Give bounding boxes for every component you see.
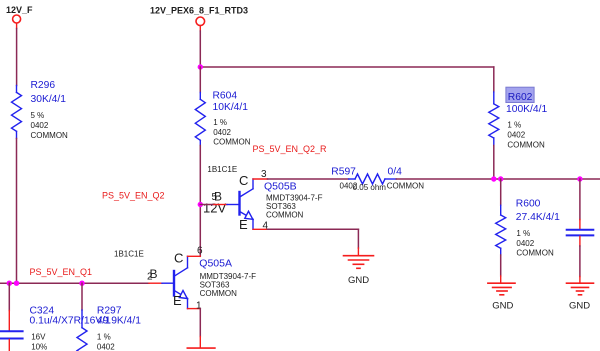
svg-text:1B1C1E: 1B1C1E xyxy=(114,250,144,259)
wire C324 down to edge xyxy=(8,340,10,351)
R604 value labels xyxy=(213,90,251,146)
svg-text:12V_F: 12V_F xyxy=(6,5,33,15)
wire R604 down through 12V node to Q505A collector xyxy=(199,146,201,257)
svg-text:R600: R600 xyxy=(516,199,541,210)
svg-text:PS_5V_EN_Q2: PS_5V_EN_Q2 xyxy=(102,191,165,201)
port 12V_F xyxy=(6,5,33,29)
svg-text:GND: GND xyxy=(492,301,513,312)
port 12V_PEX6_8_F1_RTD3 xyxy=(150,5,248,31)
ground GND under capacitor xyxy=(567,283,594,295)
node 12V junction xyxy=(198,202,203,207)
wire top bus corner down to R602 xyxy=(493,67,495,92)
resistor R602 xyxy=(489,92,499,146)
wire junction down to R600 xyxy=(500,179,502,205)
R597 value labels xyxy=(331,167,424,193)
ground GND at Q505B emitter xyxy=(344,256,374,269)
resistor R297 xyxy=(77,310,87,351)
R600 value labels xyxy=(516,199,560,258)
wire R602 to junction xyxy=(493,146,495,180)
wire 12V_F to R296 xyxy=(16,29,18,86)
node junction R600 top xyxy=(498,176,503,181)
svg-text:27.4K/4/1: 27.4K/4/1 xyxy=(516,212,560,223)
svg-text:PS_5V_EN_Q1: PS_5V_EN_Q1 xyxy=(30,267,93,277)
wire bus down to C324 xyxy=(8,283,10,330)
resistor R604 xyxy=(195,93,205,146)
svg-text:PS_5V_EN_Q2_R: PS_5V_EN_Q2_R xyxy=(253,144,328,154)
svg-text:R597: R597 xyxy=(331,167,356,178)
svg-text:0402: 0402 xyxy=(31,121,49,130)
wire RTD3 down to junction xyxy=(199,31,201,67)
resistor R597 xyxy=(349,174,397,184)
svg-text:COMMON: COMMON xyxy=(516,249,554,258)
svg-text:49.9K/4/1: 49.9K/4/1 xyxy=(97,315,141,326)
wire capacitor to GND xyxy=(579,236,581,283)
svg-text:0402: 0402 xyxy=(213,128,231,137)
node junction R296 bottom xyxy=(14,281,19,286)
svg-text:COMMON: COMMON xyxy=(387,182,425,191)
svg-text:100K/4/1: 100K/4/1 xyxy=(506,104,547,115)
svg-text:0402: 0402 xyxy=(516,239,534,248)
svg-text:COMMON: COMMON xyxy=(31,131,69,140)
wire junction to R604 xyxy=(199,67,201,93)
svg-text:COMMON: COMMON xyxy=(213,138,251,147)
node junction cap branch xyxy=(577,176,582,181)
svg-text:1B1C1E: 1B1C1E xyxy=(207,165,237,174)
svg-text:0/4: 0/4 xyxy=(388,167,403,178)
svg-text:16V: 16V xyxy=(31,333,46,342)
wire bus down to R297 xyxy=(81,283,83,310)
wire R597 to right edge xyxy=(396,178,600,180)
node junction R602 bottom xyxy=(491,176,496,181)
wire top bus to right xyxy=(200,66,494,68)
svg-text:1 %: 1 % xyxy=(97,333,111,342)
wire Q505B emitter to GND xyxy=(268,229,359,255)
C324 value labels xyxy=(30,306,112,351)
transistor Q505A xyxy=(147,246,203,312)
wire 12V node to Q505B base xyxy=(200,204,214,206)
svg-text:1 %: 1 % xyxy=(507,121,521,130)
node junction 12V rail top xyxy=(198,64,203,69)
capacitor C324 xyxy=(0,331,23,338)
svg-text:12V_PEX6_8_F1_RTD3: 12V_PEX6_8_F1_RTD3 xyxy=(150,5,248,15)
svg-text:COMMON: COMMON xyxy=(507,141,545,150)
svg-text:E: E xyxy=(239,217,248,232)
wire Q505B collector to R597 xyxy=(268,178,349,180)
svg-text:3: 3 xyxy=(261,169,267,180)
svg-text:Q505B: Q505B xyxy=(264,181,297,193)
Q505A labels xyxy=(199,258,256,298)
svg-text:E: E xyxy=(173,293,182,308)
resistor R296 xyxy=(12,86,22,139)
svg-text:2: 2 xyxy=(147,272,153,283)
svg-text:6: 6 xyxy=(197,246,203,257)
svg-text:10%: 10% xyxy=(31,343,47,351)
svg-text:30K/4/1: 30K/4/1 xyxy=(31,94,67,105)
node junction R297 top xyxy=(79,281,84,286)
svg-text:1 %: 1 % xyxy=(213,118,227,127)
svg-text:0.05 ohm: 0.05 ohm xyxy=(353,183,387,192)
svg-text:1 %: 1 % xyxy=(516,229,530,238)
R602 highlight box and labels xyxy=(506,87,548,149)
transistor Q505B xyxy=(212,169,269,232)
resistor R600 xyxy=(496,205,506,255)
svg-text:C: C xyxy=(174,250,183,265)
svg-text:0402: 0402 xyxy=(507,131,525,140)
svg-text:COMMON: COMMON xyxy=(266,210,304,219)
svg-text:5: 5 xyxy=(212,192,218,203)
wire R600 to GND xyxy=(500,255,502,283)
svg-text:COMMON: COMMON xyxy=(200,289,238,298)
svg-text:GND: GND xyxy=(569,301,590,312)
svg-text:R604: R604 xyxy=(213,90,238,101)
svg-text:5 %: 5 % xyxy=(31,111,45,120)
R297 value labels xyxy=(97,306,141,351)
capacitor right xyxy=(567,230,594,236)
svg-text:Q505A: Q505A xyxy=(199,258,232,270)
svg-text:C: C xyxy=(239,173,248,188)
wire junction down to capacitor xyxy=(579,179,581,229)
svg-text:R602: R602 xyxy=(508,92,533,103)
svg-text:1: 1 xyxy=(196,300,202,311)
svg-text:10K/4/1: 10K/4/1 xyxy=(213,102,249,113)
Q505B labels xyxy=(264,181,323,220)
ground GND at Q505A emitter xyxy=(187,347,215,349)
wire R296 to bottom bus xyxy=(16,139,18,284)
wire Q505A emitter to GND xyxy=(199,309,201,348)
svg-text:GND: GND xyxy=(348,275,369,286)
R296 value labels xyxy=(31,80,69,140)
svg-text:0402: 0402 xyxy=(97,343,115,351)
ground GND under R600 xyxy=(488,283,515,295)
node junction C324 xyxy=(7,281,12,286)
svg-text:R296: R296 xyxy=(31,80,56,91)
wire bottom bus xyxy=(0,282,149,284)
